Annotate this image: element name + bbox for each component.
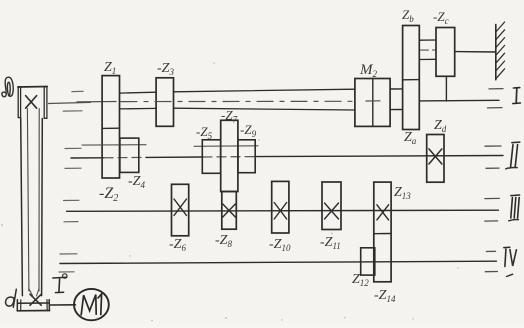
shaft IV left end dashes (60, 253, 77, 255)
X mark: Z6 on shaft III (174, 199, 187, 216)
X mark: Z11 on shaft III (325, 203, 339, 219)
scan specks (noise) (1, 62, 459, 321)
gear Z4 on shaft II (120, 138, 139, 172)
top pulley right flange (44, 87, 47, 119)
gear Zd on shaft II (427, 135, 444, 183)
connector Zc bottom to shaft I end (445, 76, 447, 101)
top pulley left flange (18, 87, 20, 118)
shaft III left end dashes (64, 199, 80, 201)
label shaft III (roman numeral) (511, 194, 520, 197)
gear Z9 of triple cluster (238, 140, 255, 173)
shaft III right end dashes (485, 197, 500, 199)
wall anchor (fixed support) line (495, 25, 497, 80)
shaft I body Z3 to M2 bottom line (174, 108, 355, 110)
shaft II upper sketch line (middle cluster) (194, 145, 258, 148)
coupling M2 to Za bottom line (390, 109, 403, 111)
wire: motor shaft to pulley (50, 304, 76, 306)
countershaft Zb to Zc top line (419, 39, 436, 41)
gear Z1 / Z2 sliding block on shafts I-II (102, 76, 119, 178)
shaft IV main line (60, 261, 496, 263)
shaft I body Z1 to Z3 bottom line (120, 107, 157, 110)
clutch M2 internal divider (372, 79, 374, 127)
X mark: Z13 on shaft III (377, 205, 389, 220)
X mark: pulley fixed on shaft (26, 96, 37, 109)
label shaft II (roman numeral) (512, 141, 520, 144)
shaft I body Z1 to Z3 top line (120, 91, 157, 94)
belt converge strokes (29, 289, 34, 298)
label shaft I (roman numeral) (513, 87, 519, 89)
belt line outer-left (21, 118, 23, 296)
wall anchor hatching (496, 22, 505, 32)
gear Zc (436, 28, 455, 77)
gear block Zb/Za on shaft I (403, 26, 420, 130)
wire Zc to wall anchor (455, 51, 496, 53)
shaft I upper dash near pulley (72, 90, 83, 92)
gear Z3 on shaft I (156, 78, 173, 127)
motor M1 text (81, 295, 96, 315)
shaft I centerline from pulley to gear Z1 (49, 102, 91, 103)
label shaft IV (roman numeral) (504, 246, 510, 248)
gear Z10 on shaft III (272, 181, 289, 233)
X mark: Z8 on shaft III (223, 204, 236, 217)
divider between Z13 and Z14 (374, 233, 391, 235)
clutch M2 body (355, 79, 390, 127)
divider between Z1 and Z2 (102, 127, 119, 129)
shaft I dash-dot centerline Z1 to M2 (121, 100, 354, 102)
shaft II upper sketch line (left cluster) (82, 144, 146, 146)
gear Z7 of triple cluster (221, 120, 238, 191)
gear Z5 of triple cluster (202, 140, 220, 174)
gear Z11 on shaft III (322, 182, 341, 230)
gear Z6 on shaft III (172, 184, 189, 236)
label 1-degree (shaft 1 superscript o) (53, 276, 67, 279)
X mark: bottom pulley on motor shaft (30, 294, 41, 305)
script letter d (pulley diameter label) (6, 289, 17, 307)
X mark: Z10 on shaft III (274, 203, 287, 220)
shaft III main line (67, 210, 499, 211)
script letter D (drive label, top-left) (2, 77, 13, 97)
shaft I body Z3 to M2 top line (174, 89, 355, 92)
shaft II left end dashes (65, 147, 81, 149)
clutch M2 center tick (366, 100, 380, 102)
gear Z12 on shaft IV (361, 248, 375, 275)
countershaft dash-dot centerline (421, 49, 436, 51)
countershaft Zb to Zc bottom line (419, 58, 436, 60)
X mark: Zd fixed on shaft II (429, 149, 442, 164)
belt line outer-right (41, 119, 44, 296)
shaft IV right end dashes (486, 250, 495, 252)
belt line inner-left (27, 109, 29, 292)
coupling M2 to Za top line (390, 88, 403, 90)
motor M1 circle (74, 289, 109, 320)
bottom pulley rim (17, 302, 49, 304)
shaft II main line (71, 157, 104, 159)
divider between Zb and Za (403, 79, 420, 81)
shaft I right end dashes (489, 88, 503, 90)
shaft I lower dash near pulley (63, 110, 82, 112)
shaft I right end line (419, 99, 499, 102)
top pulley on shaft I: top line (18, 86, 47, 89)
gear block Z13/Z14 on shafts III-IV (374, 182, 391, 282)
gear Z8 on shaft III (222, 192, 237, 230)
belt line inner-right (38, 109, 40, 292)
shaft II right end dashes (485, 145, 501, 147)
